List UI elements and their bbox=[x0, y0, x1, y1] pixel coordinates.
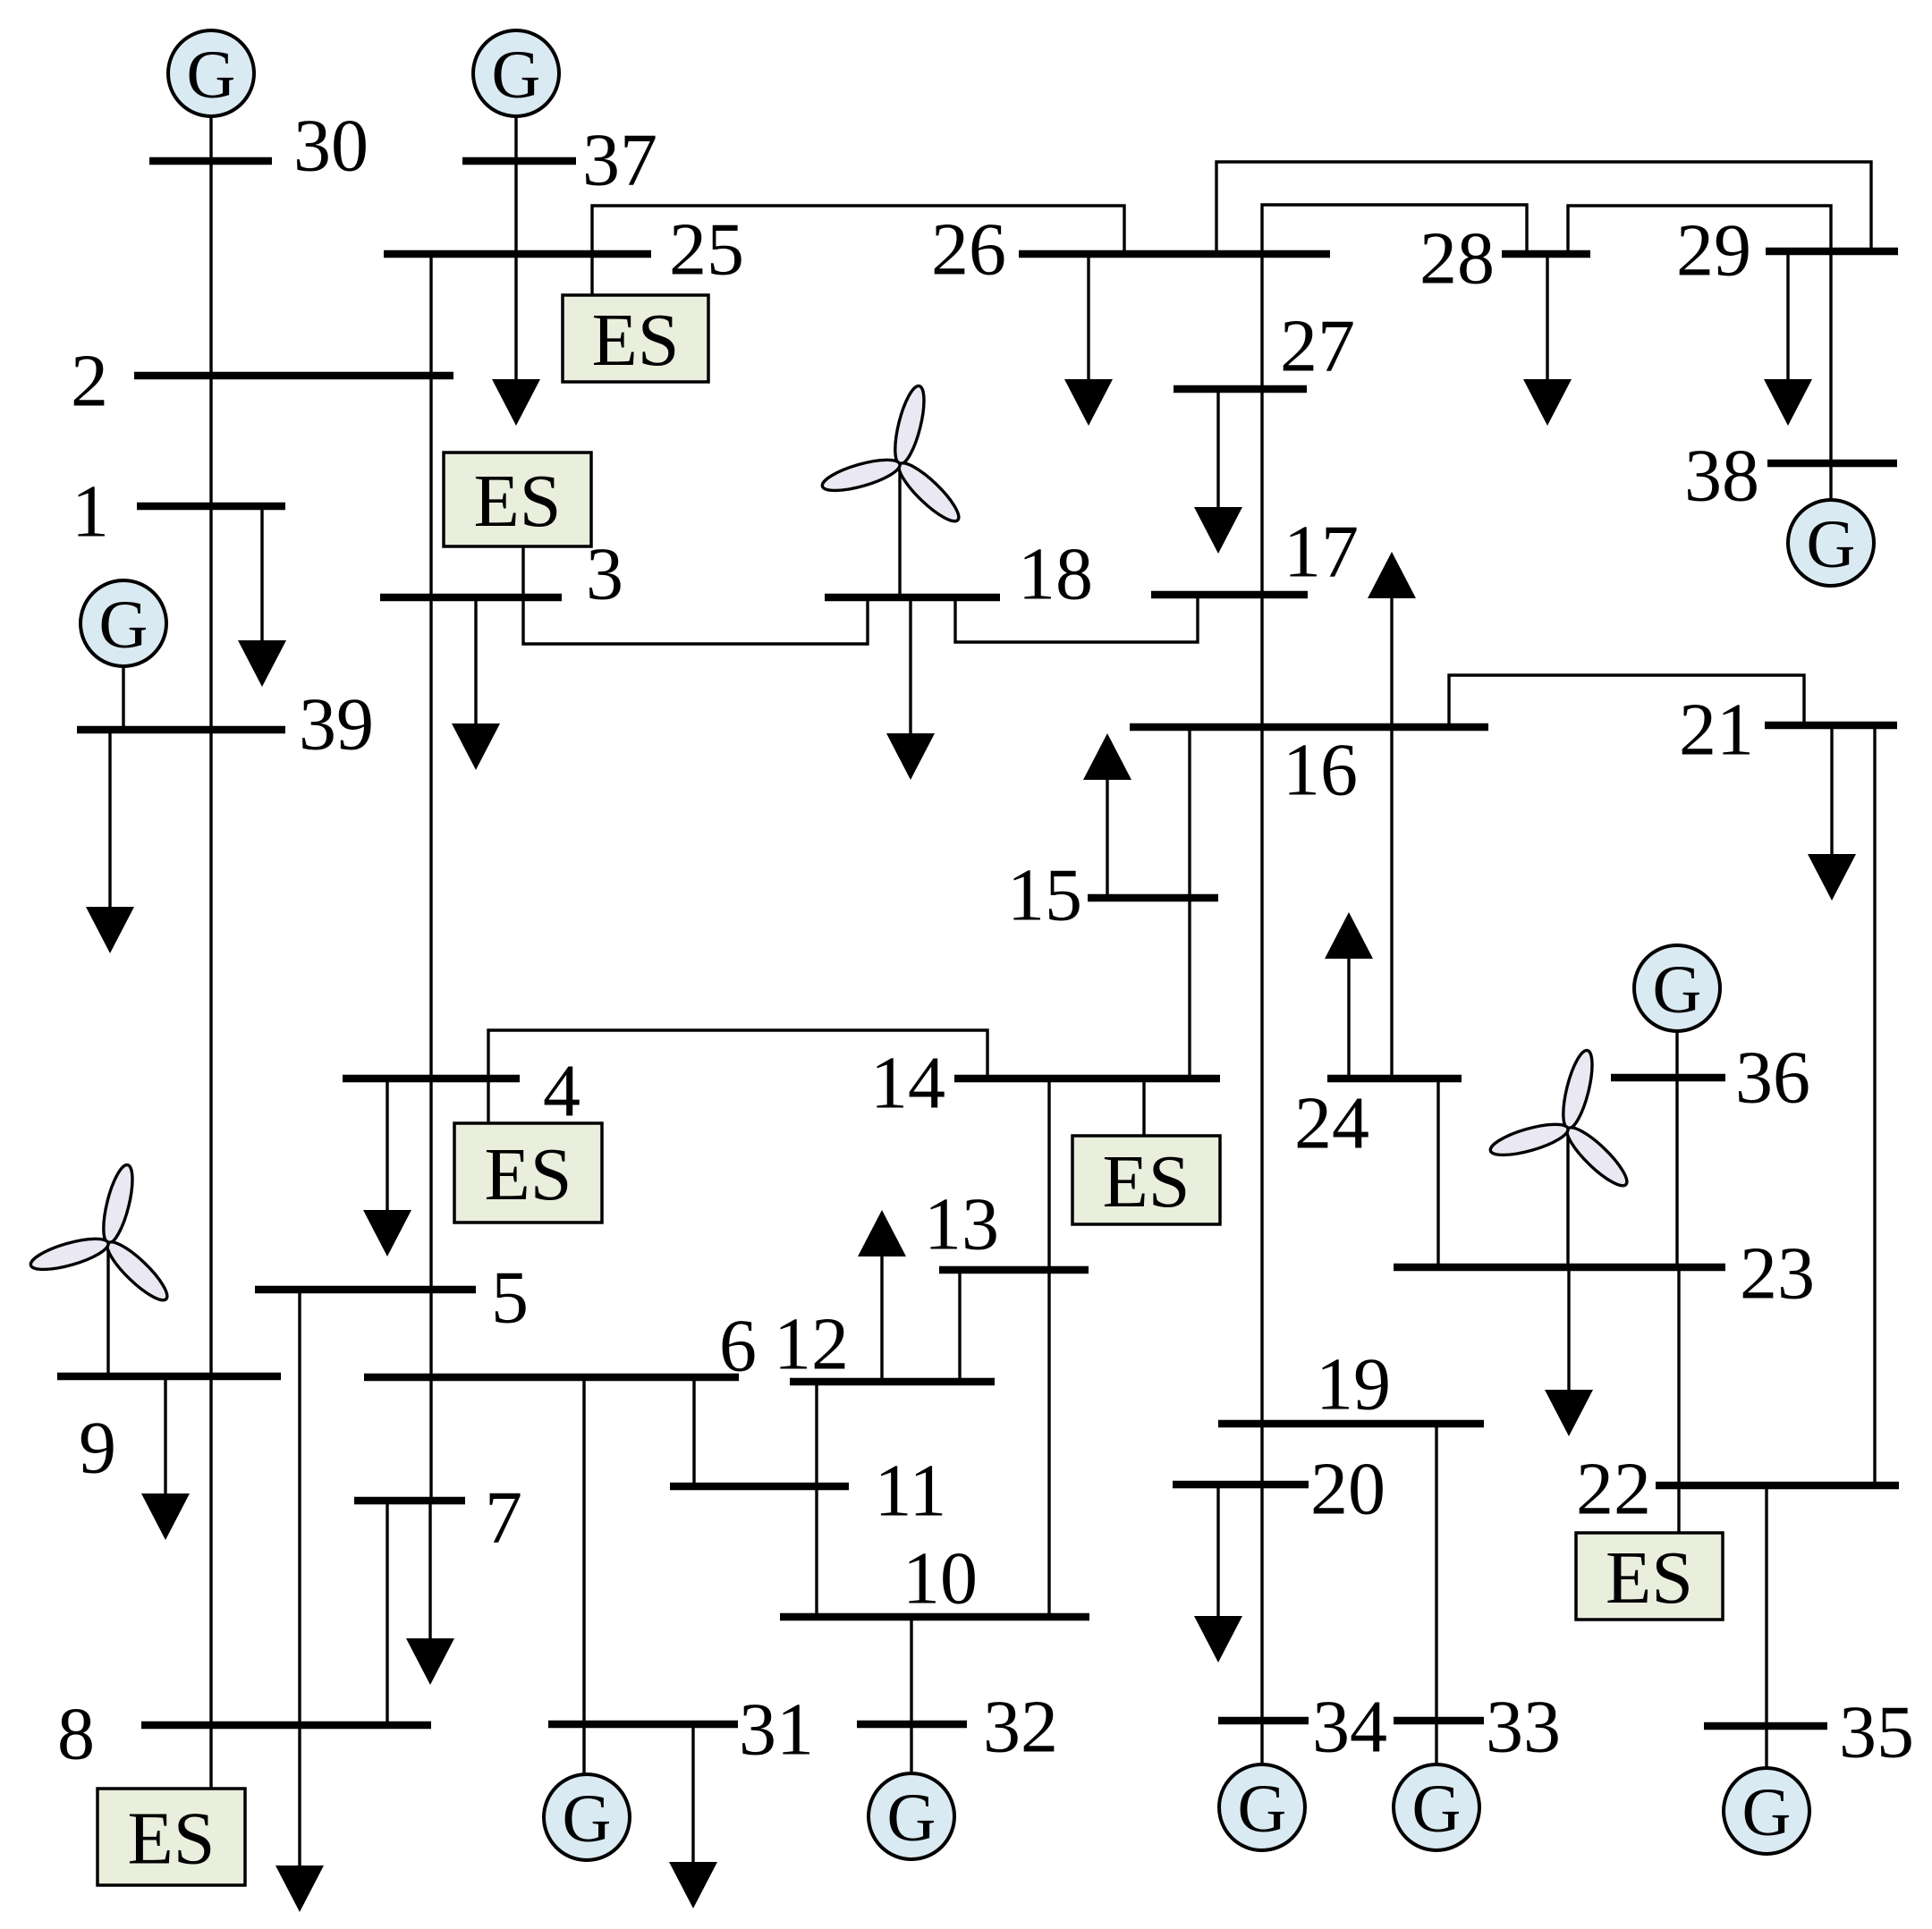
svg-text:31: 31 bbox=[739, 1688, 814, 1772]
svg-text:28: 28 bbox=[1419, 217, 1495, 300]
svg-text:30: 30 bbox=[293, 105, 369, 188]
svg-text:34: 34 bbox=[1312, 1686, 1387, 1769]
svg-text:38: 38 bbox=[1684, 435, 1759, 518]
svg-text:G: G bbox=[99, 588, 148, 663]
svg-text:26: 26 bbox=[931, 208, 1006, 292]
svg-text:22: 22 bbox=[1576, 1448, 1651, 1531]
svg-text:10: 10 bbox=[902, 1537, 978, 1620]
svg-text:33: 33 bbox=[1486, 1686, 1561, 1769]
svg-text:G: G bbox=[492, 38, 541, 113]
svg-text:21: 21 bbox=[1679, 689, 1754, 772]
svg-text:ES: ES bbox=[1606, 1536, 1693, 1620]
svg-text:20: 20 bbox=[1310, 1448, 1385, 1531]
svg-text:2: 2 bbox=[71, 340, 108, 423]
svg-text:36: 36 bbox=[1735, 1036, 1810, 1120]
svg-text:G: G bbox=[1412, 1772, 1462, 1847]
svg-text:29: 29 bbox=[1676, 209, 1751, 292]
svg-text:4: 4 bbox=[543, 1050, 580, 1133]
svg-text:G: G bbox=[563, 1781, 612, 1857]
svg-text:25: 25 bbox=[669, 208, 744, 292]
svg-text:32: 32 bbox=[983, 1686, 1058, 1769]
svg-text:16: 16 bbox=[1283, 729, 1358, 812]
svg-text:12: 12 bbox=[774, 1303, 849, 1386]
svg-text:37: 37 bbox=[582, 119, 657, 202]
svg-text:39: 39 bbox=[299, 683, 374, 766]
svg-text:27: 27 bbox=[1280, 305, 1355, 388]
svg-text:11: 11 bbox=[875, 1450, 947, 1533]
svg-text:7: 7 bbox=[485, 1476, 522, 1560]
svg-text:G: G bbox=[887, 1781, 936, 1856]
svg-text:G: G bbox=[1742, 1775, 1792, 1850]
svg-text:1: 1 bbox=[72, 470, 109, 554]
svg-text:ES: ES bbox=[1102, 1140, 1190, 1223]
svg-text:15: 15 bbox=[1007, 854, 1082, 937]
svg-text:5: 5 bbox=[491, 1256, 529, 1340]
svg-text:G: G bbox=[1238, 1772, 1287, 1847]
svg-text:19: 19 bbox=[1316, 1343, 1391, 1426]
svg-text:9: 9 bbox=[79, 1407, 116, 1490]
svg-text:23: 23 bbox=[1740, 1232, 1815, 1316]
svg-text:3: 3 bbox=[586, 533, 623, 616]
svg-text:G: G bbox=[1653, 952, 1702, 1028]
svg-text:ES: ES bbox=[127, 1798, 215, 1881]
svg-text:14: 14 bbox=[870, 1042, 945, 1125]
svg-text:G: G bbox=[187, 38, 236, 113]
svg-text:13: 13 bbox=[924, 1183, 999, 1266]
svg-text:17: 17 bbox=[1284, 511, 1359, 594]
svg-text:G: G bbox=[1807, 507, 1856, 582]
svg-text:6: 6 bbox=[719, 1305, 757, 1388]
svg-text:35: 35 bbox=[1839, 1691, 1914, 1774]
svg-text:ES: ES bbox=[473, 460, 561, 543]
svg-text:ES: ES bbox=[484, 1133, 572, 1216]
svg-text:8: 8 bbox=[57, 1693, 95, 1776]
svg-text:ES: ES bbox=[591, 299, 679, 382]
svg-text:24: 24 bbox=[1294, 1082, 1369, 1165]
svg-text:18: 18 bbox=[1018, 533, 1093, 616]
